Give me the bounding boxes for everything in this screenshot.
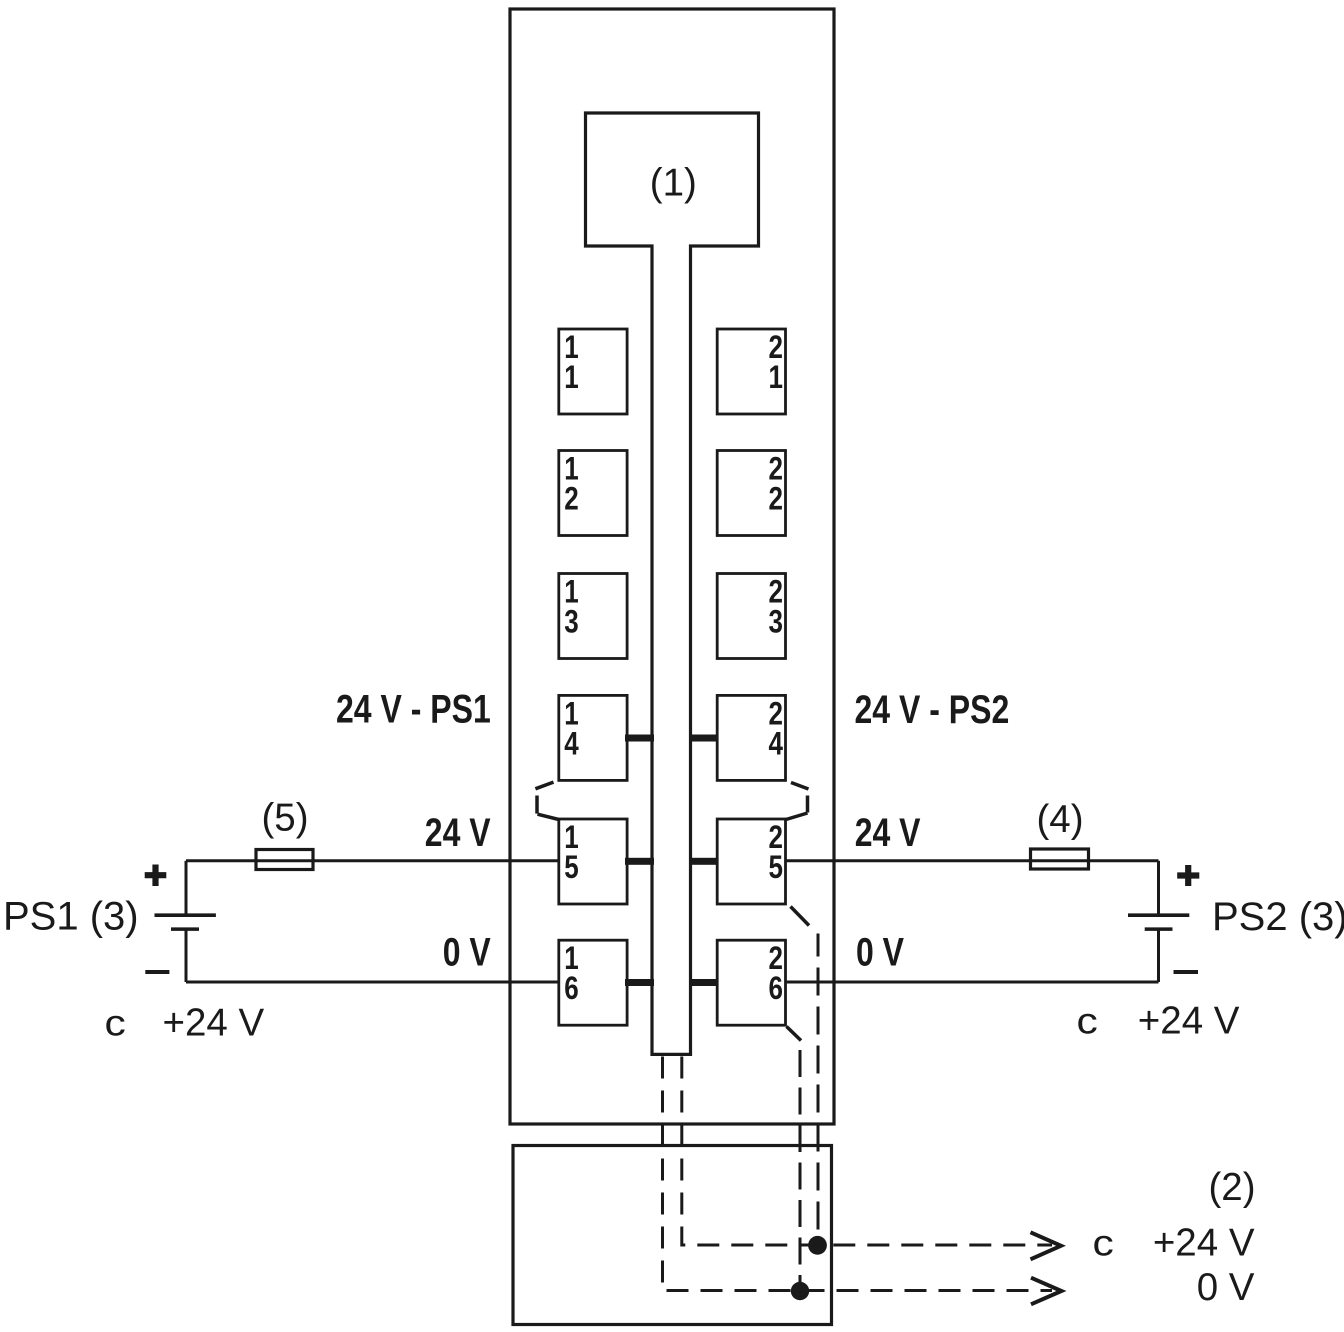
svg-text:24 V - PS1: 24 V - PS1	[336, 686, 491, 731]
svg-text:3: 3	[769, 604, 783, 640]
svg-text:c: c	[1093, 1223, 1114, 1264]
svg-text:24 V: 24 V	[855, 809, 921, 854]
svg-text:(1): (1)	[650, 162, 697, 205]
svg-text:+24 V: +24 V	[1153, 1222, 1255, 1265]
svg-text:6: 6	[564, 970, 578, 1006]
svg-text:5: 5	[769, 849, 783, 885]
svg-text:0 V: 0 V	[443, 929, 491, 974]
svg-text:4: 4	[564, 726, 579, 762]
svg-text:c: c	[105, 1003, 126, 1044]
svg-text:3: 3	[564, 604, 578, 640]
svg-text:5: 5	[564, 849, 578, 885]
svg-text:0 V: 0 V	[856, 929, 904, 974]
svg-text:(2): (2)	[1208, 1166, 1255, 1209]
svg-text:+24 V: +24 V	[1138, 1000, 1240, 1043]
svg-text:1: 1	[564, 359, 578, 395]
svg-text:(5): (5)	[261, 797, 308, 840]
svg-text:2: 2	[769, 481, 783, 517]
svg-text:2: 2	[564, 481, 578, 517]
svg-text:4: 4	[769, 726, 784, 762]
svg-text:6: 6	[769, 970, 783, 1006]
svg-text:PS1 (3): PS1 (3)	[3, 895, 139, 939]
svg-text:24 V - PS2: 24 V - PS2	[855, 686, 1010, 731]
svg-text:c: c	[1077, 1001, 1098, 1042]
svg-text:(4): (4)	[1036, 798, 1083, 841]
svg-text:24 V: 24 V	[425, 809, 491, 854]
svg-text:+24 V: +24 V	[163, 1002, 265, 1045]
svg-text:0 V: 0 V	[1197, 1266, 1255, 1309]
svg-text:PS2 (3): PS2 (3)	[1212, 895, 1344, 939]
svg-text:1: 1	[769, 359, 783, 395]
